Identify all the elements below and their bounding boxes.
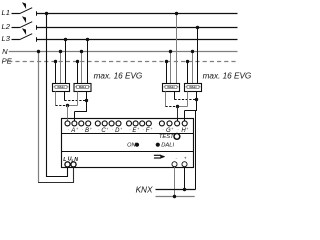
svg-text:+: + — [106, 127, 108, 131]
svg-text:+: + — [184, 156, 187, 161]
svg-text:DALI: DALI — [168, 85, 175, 89]
svg-text:max. 16 EVG: max. 16 EVG — [94, 72, 143, 81]
svg-text:+: + — [171, 127, 173, 131]
svg-text:A: A — [70, 128, 75, 134]
svg-text:max. 16 EVG: max. 16 EVG — [203, 72, 252, 81]
svg-text:+: + — [120, 127, 122, 131]
svg-text:F: F — [146, 128, 150, 134]
svg-text:+: + — [137, 127, 139, 131]
svg-text:+: + — [76, 127, 78, 131]
svg-text:ON: ON — [127, 143, 136, 149]
svg-text:L1: L1 — [2, 8, 10, 17]
svg-text:TEST: TEST — [159, 134, 174, 140]
svg-text:+: + — [151, 127, 153, 131]
svg-text:DALI: DALI — [190, 85, 197, 89]
svg-text:DALI: DALI — [58, 85, 65, 89]
svg-text:N: N — [2, 47, 8, 56]
svg-text:G: G — [166, 128, 171, 134]
svg-text:+: + — [90, 127, 92, 131]
svg-text:DALI: DALI — [161, 143, 174, 149]
svg-text:+: + — [186, 127, 188, 131]
svg-text:DALI: DALI — [79, 85, 86, 89]
svg-text:L2: L2 — [2, 22, 11, 31]
svg-text:L3: L3 — [2, 34, 11, 43]
svg-text:KNX: KNX — [136, 186, 153, 195]
svg-text:B: B — [85, 128, 89, 134]
